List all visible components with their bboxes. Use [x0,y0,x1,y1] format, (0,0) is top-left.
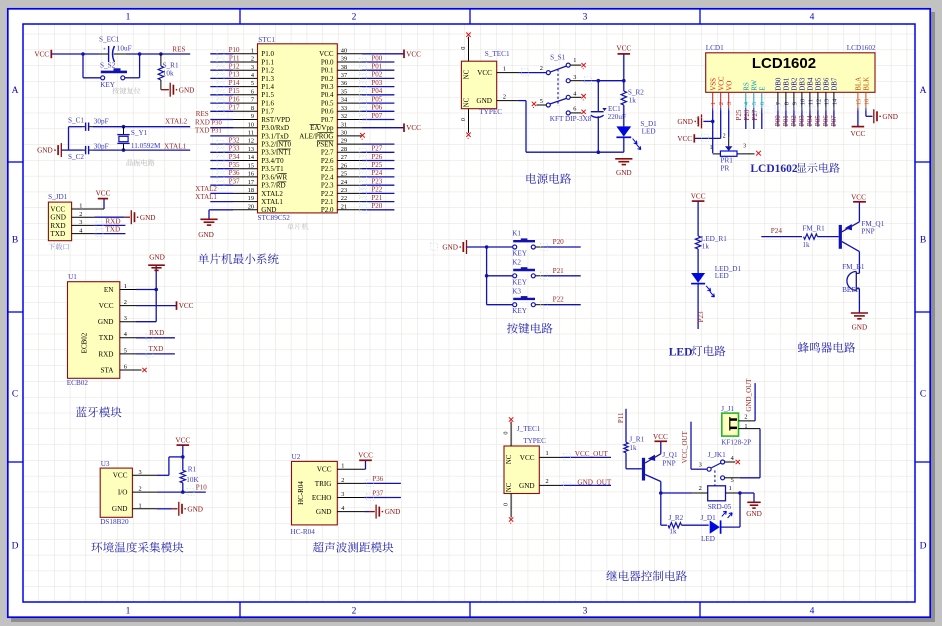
svg-text:P0.5: P0.5 [321,100,334,108]
svg-text:P1.3: P1.3 [261,75,274,83]
svg-text:P2.2: P2.2 [321,190,334,198]
svg-text:ALE/PROG: ALE/PROG [299,132,333,140]
svg-text:DB1: DB1 [783,77,791,91]
svg-text:10K: 10K [186,476,199,484]
svg-text:ECHO: ECHO [312,494,332,502]
svg-text:P1.5: P1.5 [261,91,274,99]
svg-text:GND: GND [882,113,898,121]
svg-text:VCC: VCC [477,69,492,77]
svg-text:P2.7: P2.7 [321,149,334,157]
svg-text:KEY: KEY [512,307,528,315]
svg-text:NC: NC [506,482,513,492]
svg-text:PR: PR [721,165,730,173]
svg-text:NC: NC [463,97,470,107]
svg-text:GND: GND [746,510,762,518]
svg-text:SRD-05: SRD-05 [708,503,732,511]
svg-text:XTAL1: XTAL1 [164,142,187,150]
svg-text:VCC: VCC [34,51,49,59]
svg-text:P2.5: P2.5 [321,165,334,173]
svg-text:GND: GND [179,86,195,94]
svg-text:P3.1/TxD: P3.1/TxD [261,132,288,140]
svg-text:J_JK1: J_JK1 [708,451,726,459]
svg-text:P02: P02 [790,115,798,126]
svg-text:P36: P36 [372,475,383,483]
svg-text:RXD: RXD [105,217,120,225]
svg-text:1: 1 [546,450,549,457]
svg-text:P0.2: P0.2 [321,75,334,83]
svg-text:2: 2 [341,477,344,484]
svg-text:S_TEC1: S_TEC1 [485,50,510,58]
svg-text:RES: RES [196,110,209,118]
svg-text:P07: P07 [371,112,382,120]
svg-text:2: 2 [723,134,726,140]
svg-text:3: 3 [124,315,127,322]
svg-text:P05: P05 [371,95,382,103]
svg-text:B: B [920,236,926,246]
svg-text:K2: K2 [512,259,521,267]
svg-text:A: A [12,86,19,96]
svg-text:P32: P32 [229,136,240,144]
svg-text:TYPEC: TYPEC [523,437,546,445]
svg-text:PNP: PNP [861,227,874,235]
svg-text:S_C2: S_C2 [68,153,84,161]
svg-text:LCD1602: LCD1602 [750,163,798,175]
svg-text:FM_B1: FM_B1 [842,263,865,271]
svg-text:K1: K1 [512,230,521,238]
svg-text:P03: P03 [798,115,806,126]
svg-text:P03: P03 [371,79,382,87]
svg-text:KF128-2P: KF128-2P [721,439,751,447]
svg-text:P1.0: P1.0 [261,50,274,58]
svg-text:XTAL2: XTAL2 [261,190,283,198]
svg-text:1: 1 [710,145,713,151]
svg-text:KFT DIP-3X8: KFT DIP-3X8 [550,115,592,123]
svg-text:RXD: RXD [98,350,113,358]
svg-text:P15: P15 [229,87,240,95]
svg-text:EN: EN [104,286,114,294]
svg-text:KEY: KEY [512,250,528,258]
svg-text:2: 2 [139,486,142,493]
svg-text:P21: P21 [371,194,382,202]
svg-text:S_S1: S_S1 [550,54,566,62]
svg-text:S_R2: S_R2 [628,88,644,96]
svg-text:3: 3 [743,143,746,149]
svg-text:GND: GND [140,214,156,222]
svg-text:ECB02: ECB02 [67,379,89,387]
svg-text:2: 2 [718,102,725,105]
svg-text:9: 9 [791,102,798,105]
svg-text:GND: GND [616,169,632,177]
svg-text:P23: P23 [371,178,382,186]
svg-text:J_Q1: J_Q1 [662,451,678,459]
svg-text:1k: 1k [629,444,637,452]
svg-text:P04: P04 [371,87,382,95]
svg-text:GND: GND [98,318,114,326]
svg-text:ECB02: ECB02 [81,332,89,353]
svg-text:P1.7: P1.7 [261,108,274,116]
svg-text:P2.0: P2.0 [321,206,334,214]
svg-text:NC: NC [506,454,513,464]
svg-text:HC-R04: HC-R04 [297,481,305,505]
svg-text:4: 4 [810,13,815,23]
svg-text:P05: P05 [814,115,822,126]
svg-text:VCC: VCC [691,193,706,201]
svg-text:VCC: VCC [319,50,334,58]
svg-text:2: 2 [503,93,506,100]
svg-text:J_R1: J_R1 [629,435,644,443]
svg-text:PNP: PNP [662,460,675,468]
svg-text:TYPEC: TYPEC [479,108,502,116]
svg-text:P17: P17 [229,104,240,112]
svg-text:S_Y1: S_Y1 [131,129,148,137]
svg-text:P10: P10 [229,46,240,54]
svg-text:30pF: 30pF [94,117,109,125]
svg-text:XTAL1: XTAL1 [195,193,217,201]
svg-text:DS18B20: DS18B20 [100,518,129,526]
svg-text:P30: P30 [212,119,223,126]
svg-text:1: 1 [744,423,747,430]
svg-text:U1: U1 [68,273,77,281]
svg-text:P20: P20 [553,238,565,246]
svg-text:EA/Vpp: EA/Vpp [310,124,334,132]
svg-text:FM_R1: FM_R1 [802,225,825,233]
svg-text:GND: GND [677,118,693,126]
svg-text:GND: GND [149,254,165,262]
svg-text:P26: P26 [371,153,382,161]
svg-text:LED: LED [701,535,715,543]
svg-text:RST/VPD: RST/VPD [261,116,290,124]
svg-text:GND: GND [476,97,492,105]
svg-text:TXD: TXD [105,225,120,233]
svg-text:LCD1602: LCD1602 [847,44,876,52]
svg-text:P0.1: P0.1 [321,67,334,75]
svg-text:STA: STA [100,366,114,374]
svg-text:P0.0: P0.0 [321,58,334,66]
svg-text:XTAL2: XTAL2 [195,185,217,193]
svg-text:P25: P25 [371,161,382,169]
svg-text:2: 2 [540,65,543,72]
svg-text:5: 5 [751,102,758,105]
svg-text:DB7: DB7 [831,77,839,91]
svg-text:VCC: VCC [616,45,631,53]
svg-text:P07: P07 [830,115,838,126]
svg-text:1k: 1k [669,528,677,536]
svg-text:GND: GND [198,231,214,239]
svg-text:P3.5/T1: P3.5/T1 [261,165,284,173]
svg-text:1: 1 [139,502,142,509]
svg-text:P12: P12 [229,63,240,71]
svg-text:J_D1: J_D1 [701,514,717,522]
svg-text:U3: U3 [101,460,110,468]
svg-text:3: 3 [573,74,576,81]
svg-text:P21: P21 [553,267,565,275]
svg-text:VCC: VCC [175,437,190,445]
svg-text:P10: P10 [196,484,207,492]
svg-text:P2.6: P2.6 [321,157,334,165]
svg-text:0: 0 [460,47,467,50]
svg-text:P27: P27 [371,145,382,153]
svg-text:P22: P22 [553,296,565,304]
svg-text:D: D [12,542,19,552]
svg-text:RXD: RXD [195,118,210,126]
svg-text:GND: GND [112,505,128,513]
svg-text:P00: P00 [371,54,382,62]
svg-text:P23: P23 [697,311,705,322]
svg-text:J_TEC1: J_TEC1 [517,425,541,433]
svg-text:VCC: VCC [851,193,866,201]
svg-text:1: 1 [573,57,576,64]
svg-text:TXD: TXD [149,345,164,353]
svg-text:GND: GND [316,508,332,516]
svg-text:VCC: VCC [317,466,332,474]
svg-text:DB6: DB6 [823,77,831,91]
svg-text:0: 0 [503,431,510,434]
svg-text:DB4: DB4 [807,77,815,91]
svg-text:S_R1: S_R1 [163,61,179,69]
svg-text:P20: P20 [371,202,382,210]
svg-text:P0.3: P0.3 [321,83,334,91]
svg-text:5: 5 [540,98,543,105]
svg-text:VCC: VCC [677,135,692,143]
svg-text:P33: P33 [229,145,240,153]
svg-text:VCC: VCC [717,76,725,91]
svg-text:12: 12 [815,99,822,105]
svg-text:16: 16 [863,99,870,105]
svg-text:VO: VO [725,81,733,91]
svg-text:6: 6 [124,363,127,370]
svg-text:P26: P26 [743,109,751,120]
svg-text:RES: RES [172,45,185,53]
svg-text:8: 8 [783,102,790,105]
svg-text:STC89C52: STC89C52 [258,214,291,222]
svg-text:4: 4 [810,607,815,617]
svg-text:2: 2 [546,478,549,485]
svg-text:DB2: DB2 [791,77,799,91]
svg-text:BLA: BLA [855,77,863,91]
svg-text:13: 13 [823,99,830,105]
svg-text:P3.0/RxD: P3.0/RxD [261,124,289,132]
svg-text:5: 5 [124,347,127,354]
svg-text:TXD: TXD [99,334,114,342]
svg-text:VCC: VCC [653,433,668,441]
svg-text:14: 14 [831,98,838,105]
svg-text:J_J1: J_J1 [721,405,734,413]
svg-text:GND: GND [261,206,276,214]
svg-text:DB0: DB0 [775,77,783,91]
svg-text:11: 11 [807,99,814,105]
svg-text:LCD1602: LCD1602 [752,55,816,72]
svg-text:15: 15 [855,99,862,105]
svg-text:P22: P22 [371,186,382,194]
svg-text:P31: P31 [212,128,222,135]
svg-text:P2.4: P2.4 [321,173,334,181]
svg-text:TXD: TXD [50,230,65,238]
svg-text:C: C [12,390,18,400]
svg-text:P3.2/INT0: P3.2/INT0 [261,141,291,149]
svg-text:1: 1 [124,283,127,290]
svg-text:P02: P02 [371,71,382,79]
svg-text:S_JD1: S_JD1 [48,193,68,201]
svg-text:GND: GND [852,324,868,332]
svg-text:1k: 1k [802,241,810,249]
svg-text:TRIG: TRIG [315,480,332,488]
svg-text:2: 2 [744,414,747,421]
svg-text:A: A [920,86,927,96]
svg-text:11.0592M: 11.0592M [131,142,161,150]
svg-text:P11: P11 [617,412,625,423]
svg-text:VCC: VCC [179,302,194,310]
svg-text:2: 2 [352,607,357,617]
svg-text:P3.7/RD: P3.7/RD [261,182,285,190]
svg-text:6: 6 [759,102,766,105]
svg-text:VCC: VCC [851,130,866,138]
svg-text:P13: P13 [229,71,240,79]
svg-text:VCC: VCC [96,190,111,198]
svg-text:0: 0 [460,118,467,121]
svg-text:P34: P34 [229,153,240,161]
svg-text:LCD1: LCD1 [706,44,724,52]
svg-text:GND: GND [187,505,203,513]
svg-text:1: 1 [126,607,131,617]
svg-text:3: 3 [341,491,344,498]
svg-text:D: D [920,542,927,552]
svg-text:P04: P04 [806,115,814,126]
svg-text:BLK: BLK [863,77,871,91]
svg-text:30pF: 30pF [94,142,109,150]
svg-text:HC-R04: HC-R04 [291,528,316,536]
svg-text:GND: GND [519,482,535,490]
svg-text:P06: P06 [371,104,382,112]
svg-text:1: 1 [503,65,506,72]
svg-text:0: 0 [503,503,510,506]
svg-text:RXD: RXD [50,222,65,230]
svg-text:VCC: VCC [113,472,128,480]
svg-text:VCC: VCC [50,205,65,213]
svg-text:KEY: KEY [512,278,528,286]
svg-text:GND: GND [50,214,66,222]
svg-text:PR1: PR1 [721,156,734,164]
svg-text:1k: 1k [702,243,710,251]
svg-text:2: 2 [352,13,357,23]
svg-text:XTAL1: XTAL1 [261,198,283,206]
svg-text:P0.7: P0.7 [321,116,334,124]
svg-text:VSS: VSS [709,78,717,91]
svg-text:P11: P11 [229,54,240,62]
svg-text:DB5: DB5 [815,77,823,91]
svg-text:1: 1 [126,13,131,23]
svg-text:LED: LED [715,272,729,280]
svg-text:+: + [103,47,106,53]
svg-text:10k: 10k [163,70,174,78]
svg-text:BEEP: BEEP [842,286,860,294]
svg-text:P01: P01 [782,115,790,126]
svg-text:2: 2 [124,299,127,306]
svg-text:LED: LED [669,345,693,358]
svg-text:DB3: DB3 [799,77,807,91]
svg-text:P2.3: P2.3 [321,182,334,190]
svg-text:P1.6: P1.6 [261,100,274,108]
svg-text:P16: P16 [229,95,240,103]
svg-text:P2.1: P2.1 [321,198,334,206]
svg-text:3: 3 [583,607,588,617]
svg-text:3: 3 [583,13,588,23]
svg-text:E: E [758,87,766,91]
svg-text:P0.4: P0.4 [321,91,334,99]
svg-text:I/O: I/O [118,489,128,497]
svg-text:P01: P01 [371,63,382,71]
svg-text:VCC_OUT: VCC_OUT [575,450,609,458]
svg-text:STC1: STC1 [258,36,275,44]
svg-text:P35: P35 [229,161,240,169]
svg-text:RW: RW [750,80,758,91]
svg-text:P00: P00 [774,115,782,126]
svg-text:1: 1 [710,102,717,105]
svg-text:C: C [920,390,926,400]
svg-text:GND_OUT: GND_OUT [577,478,612,486]
svg-text:VCC: VCC [406,124,421,132]
svg-text:P3.4/T0: P3.4/T0 [261,157,284,165]
svg-text:LED: LED [642,127,656,135]
svg-text:3: 3 [699,462,702,469]
svg-text:10: 10 [799,99,806,105]
svg-text:VCC: VCC [99,302,114,310]
svg-text:1: 1 [341,463,344,470]
svg-text:TXD: TXD [195,127,209,135]
svg-text:3: 3 [726,102,733,105]
svg-text:P3.3/INT1: P3.3/INT1 [261,149,291,157]
svg-text:P25: P25 [735,109,743,120]
svg-text:VCC_OUT: VCC_OUT [681,430,689,463]
svg-text:VCC: VCC [406,50,421,58]
svg-text:P37: P37 [372,489,383,497]
svg-text:7: 7 [775,102,782,105]
svg-text:XTAL2: XTAL2 [165,118,188,126]
svg-text:1: 1 [729,485,732,492]
svg-text:NC: NC [463,69,470,79]
svg-text:P1.1: P1.1 [261,58,274,66]
svg-text:P06: P06 [822,115,830,126]
svg-text:P37: P37 [229,178,240,186]
svg-text:B: B [12,236,18,246]
svg-text:GND: GND [442,244,458,252]
svg-text:RS: RS [742,82,750,91]
svg-text:R1: R1 [188,466,197,474]
svg-text:LED_R1: LED_R1 [701,235,727,243]
svg-text:1k: 1k [629,97,637,105]
svg-text:P24: P24 [371,169,382,177]
svg-text:PSEN: PSEN [316,141,333,149]
svg-text:U2: U2 [292,453,301,461]
svg-text:P0.6: P0.6 [321,108,334,116]
svg-text:2: 2 [699,485,702,492]
svg-text:S_C1: S_C1 [68,116,84,124]
svg-text:GND_OUT: GND_OUT [745,378,753,412]
svg-text:3: 3 [139,469,142,476]
svg-text:6: 6 [573,105,576,112]
svg-text:RXD: RXD [149,329,164,337]
svg-text:P3.6/WR: P3.6/WR [261,173,287,181]
svg-text:S_S2: S_S2 [100,62,116,70]
svg-text:P36: P36 [229,169,240,177]
svg-text:GND: GND [385,508,401,516]
svg-text:P24: P24 [771,227,783,235]
svg-text:10uF: 10uF [117,44,132,52]
svg-text:P1.4: P1.4 [261,83,274,91]
svg-text:J_R2: J_R2 [669,514,684,522]
svg-text:P27: P27 [751,109,759,120]
svg-text:GND: GND [37,147,53,155]
svg-text:K3: K3 [512,287,521,295]
